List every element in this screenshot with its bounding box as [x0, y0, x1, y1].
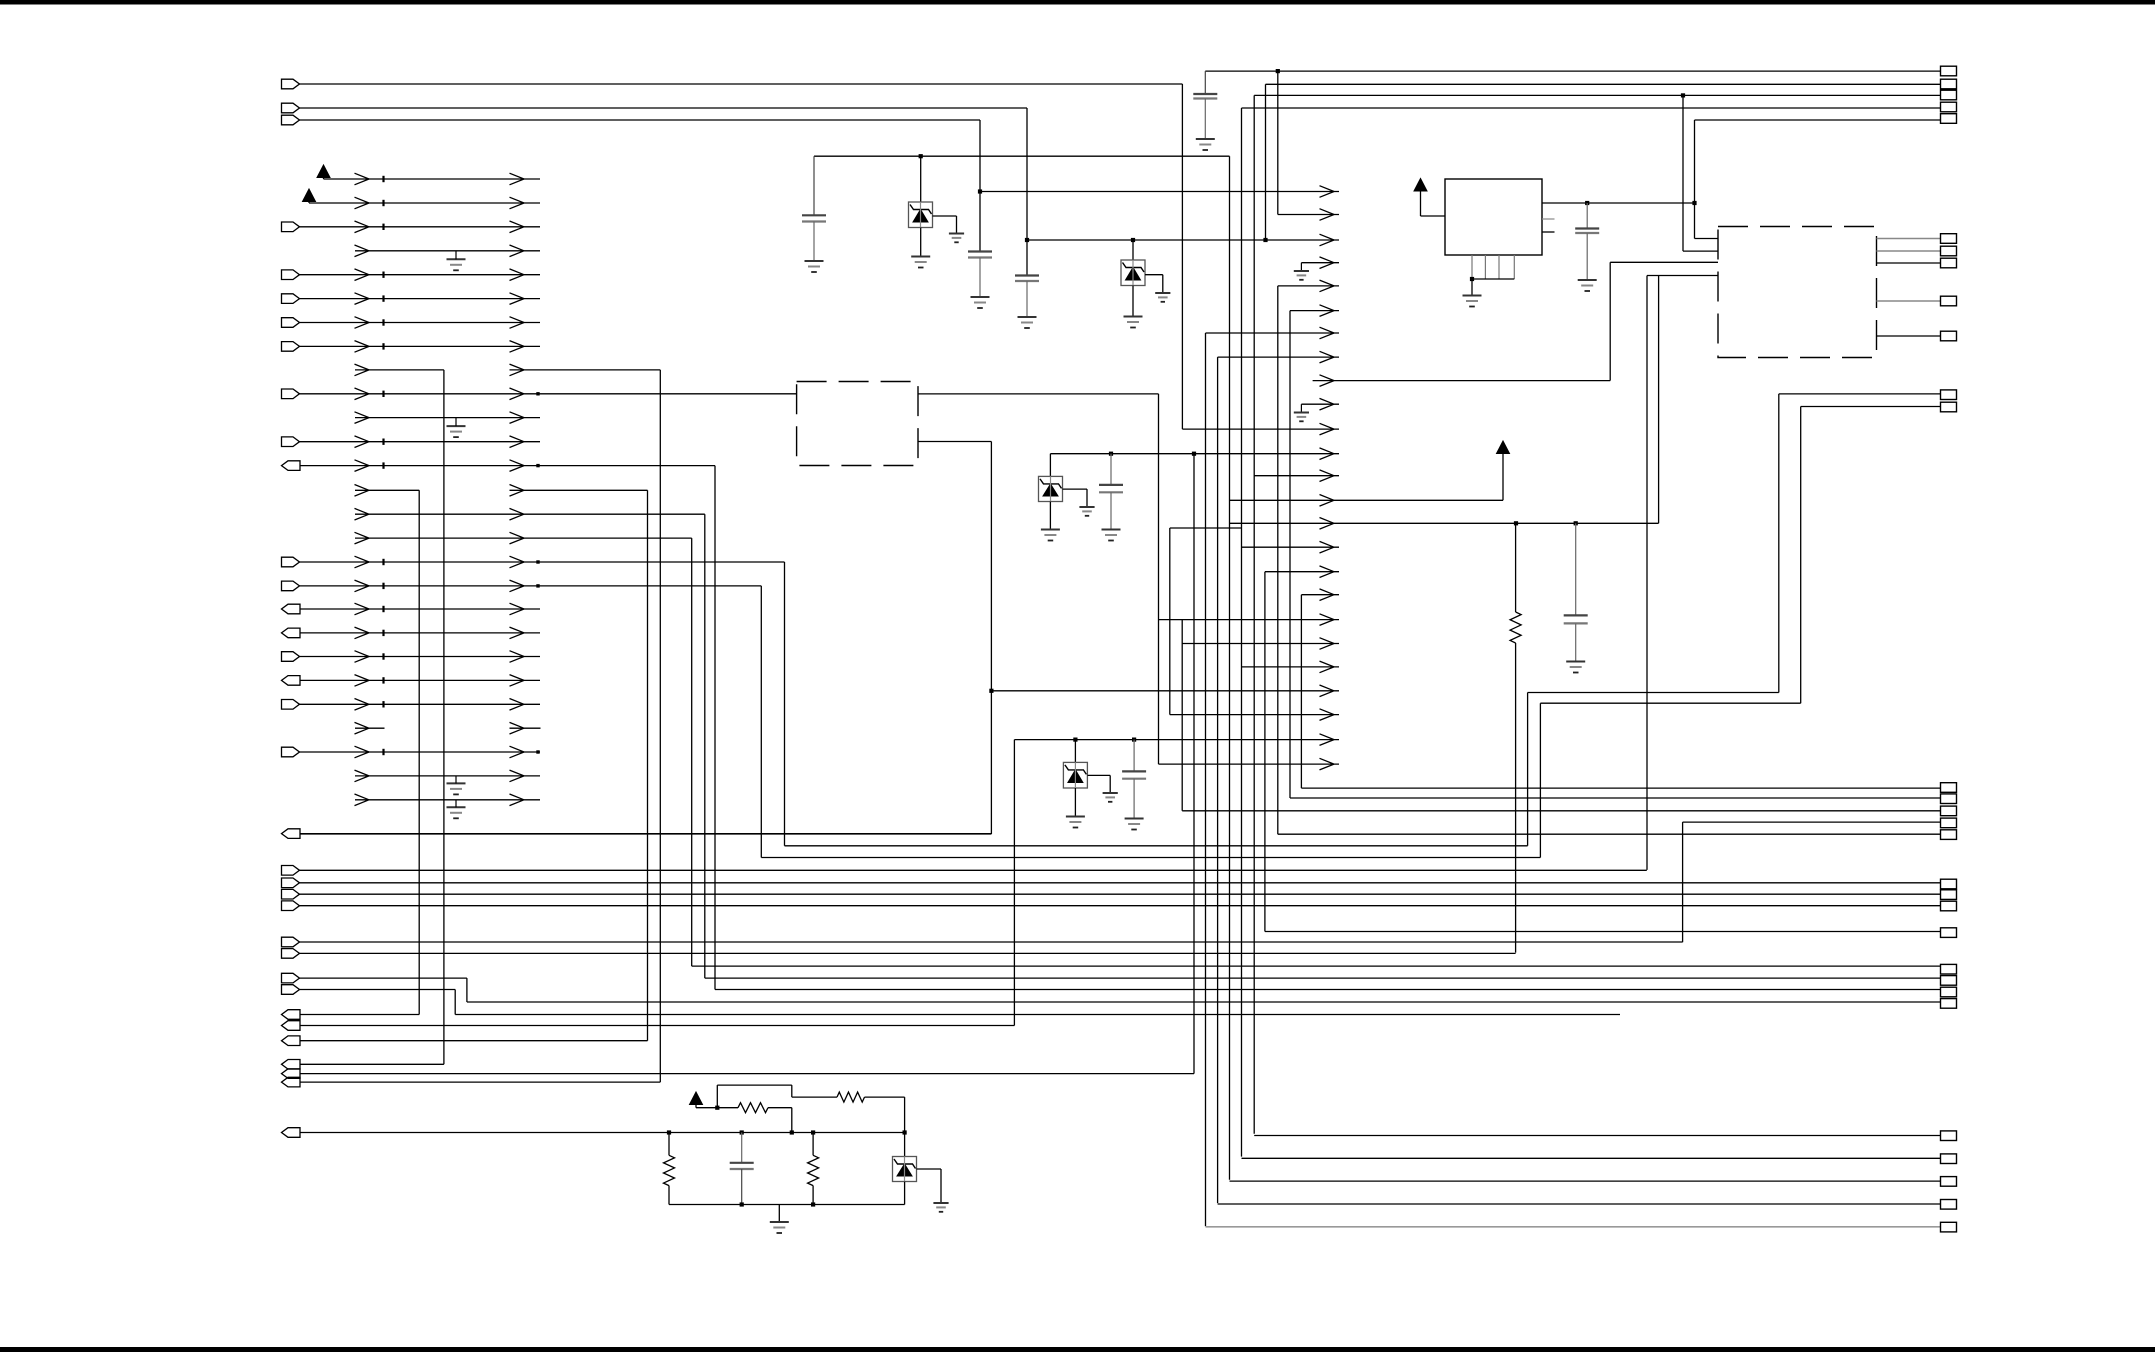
connector T1: [282, 79, 300, 89]
pad y=834.6: [1941, 830, 1957, 840]
connector R36: [282, 985, 300, 995]
pad y=932.6: [1941, 928, 1957, 938]
ground C2: [971, 296, 990, 298]
wire net857: [761, 857, 1540, 859]
pin stub reg: [1542, 218, 1555, 220]
resistor R_a: [1510, 612, 1521, 643]
bottom border bar: [0, 1347, 2155, 1352]
connector T2a: [282, 103, 300, 113]
wire P1: [324, 178, 541, 180]
wire R42: [300, 1081, 660, 1083]
connector R6: [282, 294, 300, 304]
wire V1194: [1193, 454, 1195, 1074]
ground D2b: [1155, 292, 1170, 294]
junction: [740, 1202, 744, 1206]
connector(out) R38: [282, 1021, 301, 1031]
junction: [1692, 201, 1696, 205]
pad y=336: [1941, 331, 1957, 341]
pad y=1227.1: [1941, 1222, 1957, 1232]
wire R6: [300, 298, 541, 300]
regulator bottom pins: [1471, 255, 1473, 279]
wire T2b: [300, 119, 981, 121]
wire R27: [355, 799, 540, 801]
resistor R_l: [738, 1103, 768, 1113]
connector R25: [282, 747, 300, 757]
wire r2 to arrow: [1027, 239, 1339, 241]
wire: [791, 1108, 793, 1133]
wire V1182a: [1181, 84, 1183, 429]
wire zener D5 lead: [904, 1133, 906, 1157]
connector(out) R43: [282, 1128, 301, 1138]
junction: [1276, 69, 1280, 73]
pad y=1135.7: [1941, 1131, 1957, 1141]
pad y=71: [1941, 66, 1957, 76]
resistor R_t: [837, 1092, 865, 1102]
connector T2b: [282, 115, 300, 125]
wire R10 to IC: [300, 393, 797, 395]
power symbol P3: [1414, 179, 1427, 192]
ground D4: [1066, 816, 1085, 818]
wire V1265a: [1265, 84, 1267, 240]
connector R3: [282, 222, 300, 232]
connector R31: [282, 889, 300, 899]
ground network: [770, 1221, 789, 1223]
wire R36: [300, 989, 456, 991]
wire pad407: [1801, 406, 1941, 408]
capacitor C2: [968, 250, 992, 252]
wire: [1502, 454, 1504, 501]
junction: [667, 1130, 671, 1134]
wire pad1227 (gray): [1206, 1226, 1941, 1228]
wire R2 lead: [812, 1133, 814, 1156]
wire row370 left part: [355, 369, 444, 371]
arrow row r19: [1182, 643, 1339, 645]
wire V1265b: [1264, 572, 1266, 932]
arrow row r9 + ground: [1301, 403, 1339, 405]
wire R37: [300, 1014, 419, 1016]
ground D1: [911, 256, 930, 258]
ground D3: [1041, 529, 1060, 531]
wire V1182b: [1181, 620, 1183, 811]
pad y=1181.4: [1941, 1177, 1957, 1187]
capacitor C7: [1122, 770, 1146, 772]
wire T2a: [300, 107, 1028, 109]
wire U3 pin to pad: [1877, 250, 1941, 252]
wire R40: [300, 1063, 444, 1065]
wire net156: [814, 155, 1230, 157]
wire: [696, 1107, 717, 1109]
wire R18: [300, 585, 762, 587]
connector R35: [282, 973, 300, 983]
ground C7: [1125, 818, 1144, 820]
wire R7: [300, 322, 541, 324]
wire R8: [300, 345, 541, 347]
wire R11: [355, 417, 540, 419]
wire cap C1 lead: [813, 156, 815, 215]
pad y=906: [1941, 901, 1957, 911]
connector(out) R40: [282, 1060, 301, 1070]
wire V1683: [1682, 95, 1684, 251]
wire R32 to pad: [300, 905, 1941, 907]
wire pad966: [692, 965, 1941, 967]
wire R26: [355, 775, 540, 777]
wire V1158: [1158, 394, 1160, 764]
wire cap C9 lead: [741, 1133, 743, 1163]
wire net84 right to pad: [1266, 83, 1941, 85]
wire U3 pin to pad: [1877, 262, 1941, 264]
junction cap tap: [1109, 452, 1113, 456]
wire: [791, 1085, 793, 1097]
arrow row r13: [1230, 499, 1504, 501]
wire: [1420, 191, 1422, 216]
bottom node line: [669, 1204, 905, 1206]
ground row798: [447, 806, 466, 808]
wire: [768, 1107, 792, 1109]
wire V1205: [1205, 333, 1207, 1226]
capacitor C1: [802, 214, 826, 216]
wire R4: [355, 250, 540, 252]
wire D2 right: [1145, 274, 1163, 276]
capacitor C5: [1575, 227, 1599, 229]
wire R33: [300, 941, 1683, 943]
wire R39: [300, 1040, 648, 1042]
wire V1540: [1539, 703, 1541, 857]
wire Rl lead: [717, 1107, 738, 1109]
connector(out) R20out: [282, 628, 301, 638]
pad y=263: [1941, 258, 1957, 268]
wire: [904, 1182, 906, 1205]
wire V1694: [1694, 120, 1696, 239]
connector R18: [282, 581, 300, 591]
power symbol P2: [303, 189, 316, 202]
wire V419: [418, 490, 420, 1014]
arrow row r20: [1242, 666, 1340, 668]
wire zener D3 lead: [1049, 454, 1051, 477]
wire V660: [659, 370, 661, 1082]
junction: [989, 689, 993, 693]
capacitor C9: [730, 1162, 754, 1164]
wire R5: [300, 274, 541, 276]
connector R8: [282, 342, 300, 352]
wire U3 left pin3: [1610, 261, 1718, 263]
stub row726: [355, 727, 385, 729]
junction: [811, 1130, 815, 1134]
wire V1800: [1800, 407, 1802, 704]
pad y=84: [1941, 79, 1957, 89]
wire R_a lead2: [1515, 643, 1517, 953]
ground C6: [1102, 529, 1121, 531]
wire V980: [979, 120, 981, 252]
wire zener D1 lead: [920, 156, 922, 202]
junction: [919, 154, 923, 158]
wire V1610: [1609, 262, 1611, 380]
connector(out) R19out: [282, 604, 301, 614]
pad y=969.2: [1941, 964, 1957, 974]
resistor R1: [664, 1155, 675, 1185]
wire zener D2 lead: [1132, 240, 1134, 260]
wire R1 lead: [668, 1133, 670, 1156]
pad y=980.4: [1941, 976, 1957, 986]
wire Rt lead: [792, 1096, 837, 1098]
wire pad1135: [1254, 1135, 1940, 1137]
arrow row r24: [1159, 763, 1340, 765]
wire pad1204: [1218, 1203, 1941, 1205]
wire: [1049, 502, 1051, 529]
capacitor C6: [1099, 484, 1123, 486]
capacitor C8: [1564, 614, 1588, 616]
wire net71 to pad: [1205, 70, 1940, 72]
pad y=107: [1941, 102, 1957, 112]
wire pin2 right box: [1683, 250, 1718, 252]
wire V1682: [1682, 822, 1684, 942]
ground row774: [447, 782, 466, 784]
wire V761: [760, 586, 762, 858]
pin stub reg2: [1542, 231, 1555, 233]
arrow row r1: [1278, 214, 1339, 216]
regulator U2: [1445, 179, 1542, 255]
wire pad788: [1301, 787, 1940, 789]
ground D4b: [1103, 792, 1118, 794]
arrow row r21 (long): [991, 690, 1339, 692]
wire V1014: [1013, 740, 1015, 1026]
pad y=1003.4: [1941, 999, 1957, 1009]
wire D1 right: [933, 215, 957, 217]
ground C4: [1196, 138, 1215, 140]
connector R10 to IC: [282, 389, 300, 399]
connector R32: [282, 901, 300, 911]
wire V1229: [1229, 156, 1231, 1179]
power symbol P5: [690, 1092, 703, 1105]
wire pad798: [1290, 797, 1941, 799]
junction: [1585, 201, 1589, 205]
wire V1169: [1169, 528, 1171, 715]
wire V1290: [1289, 311, 1291, 798]
wire V784: [784, 562, 786, 846]
zener diode D5: [893, 1157, 917, 1182]
junction: [1681, 93, 1685, 97]
wire to regulator: [1421, 215, 1446, 217]
pad y=1158.7: [1941, 1154, 1957, 1164]
connector R17: [282, 557, 300, 567]
wire V691: [691, 538, 693, 966]
power symbol P4: [1497, 441, 1510, 454]
pad y=251: [1941, 246, 1957, 256]
wire net95 to pad: [1254, 94, 1940, 96]
ground row251: [447, 258, 466, 260]
junction: [1025, 238, 1029, 242]
arrow row r18: [1159, 619, 1340, 621]
wire: [865, 1096, 905, 1098]
node line: [669, 1132, 905, 1134]
wire V1254: [1253, 95, 1255, 1133]
wire V1217: [1217, 357, 1219, 1203]
wire D4 right: [1087, 774, 1110, 776]
wire pad978: [705, 977, 1941, 979]
junction: [978, 189, 982, 193]
wire row370 right part: [510, 369, 661, 371]
arrow row r14: [1230, 522, 1659, 524]
wire cap C8 lead: [1575, 523, 1577, 615]
wire cap C5 lead: [1586, 203, 1588, 229]
pad y=992: [1941, 987, 1957, 997]
pad y=394.7: [1941, 390, 1957, 400]
wire R36 step: [454, 990, 456, 1015]
arrow row r8 (continues right): [1313, 380, 1611, 382]
wire zener D4 lead: [1074, 740, 1076, 763]
top border bar: [0, 0, 2155, 5]
junction V1265 end: [1263, 238, 1267, 242]
wire U1 out2: [918, 441, 991, 443]
ground C5: [1578, 279, 1597, 281]
zener diode D1: [909, 202, 933, 228]
arrow row r4: [1278, 285, 1339, 287]
wire R41: [300, 1073, 1194, 1075]
pad y=810.9: [1941, 806, 1957, 816]
junction: [1192, 452, 1196, 456]
wire R29 to right box: [300, 869, 1647, 871]
ground D5b: [933, 1202, 948, 1204]
wire V1301: [1300, 595, 1302, 788]
wire: [716, 1085, 718, 1108]
wire V1527: [1527, 693, 1529, 846]
wire cap C7 lead: [1133, 740, 1135, 772]
arrow row r5: [1290, 310, 1339, 312]
wire U1 out1: [918, 393, 1159, 395]
pad y=822.9: [1941, 818, 1957, 828]
ground row417: [447, 425, 466, 427]
wire: [1074, 788, 1076, 816]
connector(out) R41: [282, 1069, 301, 1079]
wire R35 step: [466, 978, 468, 1002]
wire net108 to pad: [1242, 107, 1941, 109]
connector R29: [282, 866, 300, 876]
wire R23: [300, 703, 541, 705]
connector(out) R13out: [282, 461, 301, 471]
junction: [1514, 521, 1518, 525]
connector R7: [282, 318, 300, 328]
connector R5: [282, 270, 300, 280]
wire U3 pin to pad: [1877, 335, 1941, 337]
wire V1277a: [1277, 71, 1279, 214]
pad y=894.6: [1941, 890, 1957, 900]
ground D3b: [1079, 506, 1094, 508]
wire V1277b: [1277, 286, 1279, 834]
wire V1647: [1646, 276, 1648, 870]
junction: [1132, 738, 1136, 742]
wire V1778: [1778, 394, 1780, 693]
wire R16: [355, 537, 692, 539]
pad y=301: [1941, 296, 1957, 306]
wire reg gnd bus: [1472, 278, 1514, 280]
wire V715: [714, 466, 716, 990]
wire R22out: [300, 679, 540, 681]
junction zener2 tap: [1131, 238, 1135, 242]
arrow row r6: [1206, 332, 1340, 334]
pad y=787.5: [1941, 783, 1957, 793]
pad y=95: [1941, 90, 1957, 100]
wire: [695, 1105, 697, 1108]
wire R21: [300, 656, 541, 658]
junction: [715, 1106, 719, 1110]
ground C1: [805, 260, 824, 262]
wire R28 long: [300, 833, 991, 835]
pad y=798.7: [1941, 794, 1957, 804]
wire: [904, 1097, 906, 1132]
wire D5 right: [917, 1168, 942, 1170]
wire R19out: [300, 608, 540, 610]
arrow row r11: [1050, 453, 1339, 455]
wire V443: [443, 370, 445, 1064]
pad y=238.5: [1941, 234, 1957, 244]
wire cap C6 lead: [1110, 454, 1112, 485]
arrow row r22: [1170, 714, 1339, 716]
connector(out) R42: [282, 1077, 301, 1087]
wire pad810: [1182, 810, 1940, 812]
zener diode D4: [1063, 762, 1087, 788]
pad y=118.5: [1941, 114, 1957, 124]
wire net703: [1540, 702, 1800, 704]
wire net692: [1528, 692, 1779, 694]
wire cap C4 lead: [1204, 71, 1206, 94]
wire: [812, 1186, 814, 1205]
wire V1241: [1241, 108, 1243, 1157]
wire pad394: [1779, 393, 1941, 395]
wire pad822: [1683, 821, 1941, 823]
connector R33: [282, 937, 300, 947]
capacitor C4: [1193, 93, 1217, 95]
wire R15: [355, 513, 705, 515]
wire V1658: [1658, 276, 1660, 524]
wire P2: [309, 202, 540, 204]
wire: [1471, 279, 1473, 295]
wire R17: [300, 561, 785, 563]
wire U3 pin to pad: [1877, 238, 1941, 240]
junction: [1470, 277, 1474, 281]
arrow row r3 + ground: [1301, 262, 1339, 264]
pad y=1204.3: [1941, 1200, 1957, 1210]
arrow row r15: [1242, 546, 1340, 548]
wire R_a lead: [1515, 523, 1517, 612]
arrow row r16: [1265, 571, 1339, 573]
IC U3 (dashed): [1718, 227, 1877, 358]
wire pad834: [1278, 833, 1941, 835]
connector R23: [282, 700, 300, 710]
wire R43 to RC network: [300, 1132, 669, 1134]
arrow row r12: [1254, 475, 1339, 477]
wire R14 right part: [510, 489, 648, 491]
wire R14 left part: [355, 489, 419, 491]
wire T1: [300, 83, 1183, 85]
IC U1 (dashed): [797, 382, 918, 466]
ground D1b: [949, 233, 964, 235]
wire R20out: [300, 632, 540, 634]
connector(out) R28: [282, 829, 301, 839]
wire R34: [300, 952, 1516, 954]
wire: [778, 1205, 780, 1222]
wire: [668, 1186, 670, 1205]
connector(out) R39: [282, 1036, 301, 1046]
wire pad989: [715, 989, 1941, 991]
junction: [1073, 738, 1077, 742]
wire R35: [300, 977, 467, 979]
wire R13out: [300, 465, 715, 467]
connector R21: [282, 652, 300, 662]
wire R3: [300, 226, 541, 228]
wire pad1181: [1230, 1180, 1941, 1182]
pad y=407: [1941, 402, 1957, 412]
pad y=884: [1941, 879, 1957, 889]
power symbol P1: [317, 165, 330, 178]
